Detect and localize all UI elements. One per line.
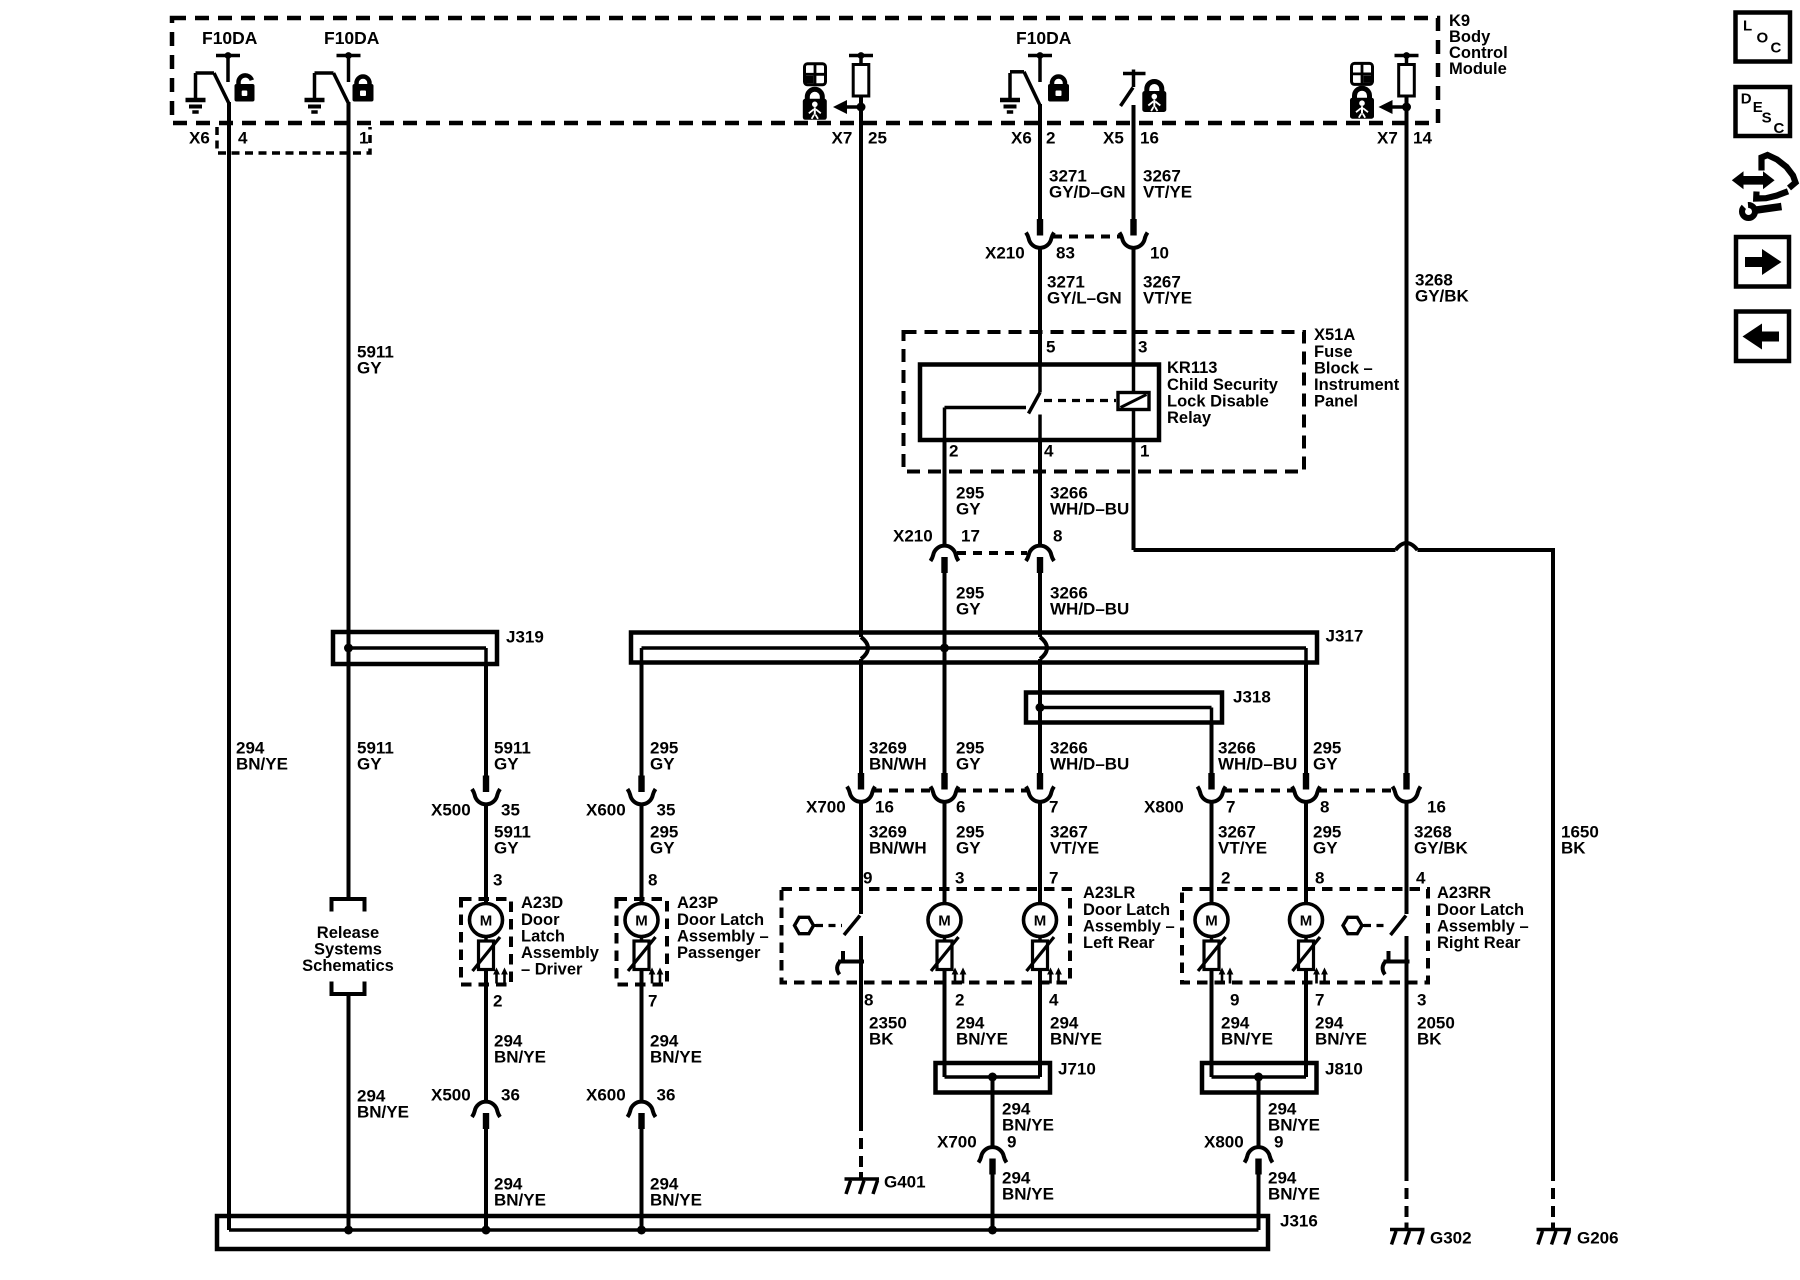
svg-text:16: 16 — [875, 798, 894, 817]
svg-text:J710: J710 — [1058, 1060, 1096, 1079]
wire motor to PTC (A23RR-L) — [1210, 937, 1214, 942]
wire A23RR pin 9 to J810 — [1210, 970, 1214, 1063]
label 1650 BK — [1561, 823, 1599, 858]
svg-text:Fuse: Fuse — [1314, 343, 1353, 361]
wire E X7-25 down to J317 hop — [859, 107, 863, 637]
connector X600 pin 35 — [628, 776, 656, 805]
label 294 BN/YE (J710 out) — [1002, 1100, 1054, 1135]
svg-text:C: C — [1774, 120, 1785, 137]
svg-text:J810: J810 — [1325, 1060, 1363, 1079]
svg-text:35: 35 — [657, 801, 676, 820]
svg-text:2: 2 — [493, 992, 502, 1011]
motor A23RR right — [1290, 904, 1323, 937]
svg-text:Lock Disable: Lock Disable — [1167, 392, 1269, 410]
svg-text:BN/YE: BN/YE — [494, 1191, 546, 1210]
off-page bracket top (Release Systems) — [332, 899, 365, 912]
svg-text:9: 9 — [1230, 991, 1239, 1010]
svg-text:GY: GY — [956, 839, 981, 858]
wire X800-16 to A23RR switch — [1405, 801, 1409, 914]
wire X6-1 to J319 — [347, 102, 351, 897]
svg-text:A23LR: A23LR — [1083, 884, 1135, 902]
svg-text:M: M — [635, 913, 648, 930]
svg-text:9: 9 — [1007, 1133, 1016, 1152]
splice J810 — [1202, 1060, 1317, 1093]
svg-text:C: C — [1771, 40, 1782, 57]
connector X500 pin 35 — [472, 776, 500, 805]
svg-text:GY: GY — [357, 755, 382, 774]
splice pack J318 — [1026, 691, 1222, 724]
off-page bracket bottom (Release Systems) — [332, 982, 365, 995]
svg-text:9: 9 — [863, 869, 872, 888]
svg-text:Schematics: Schematics — [302, 957, 394, 975]
svg-text:S: S — [1762, 110, 1772, 127]
svg-text:M: M — [480, 913, 493, 930]
svg-text:Left Rear: Left Rear — [1083, 934, 1155, 952]
label 294 BN/YE (A23LR pin2) — [956, 1014, 1008, 1049]
svg-text:GY/D–GN: GY/D–GN — [1049, 183, 1126, 202]
pin 83 label — [1056, 244, 1075, 263]
svg-text:F10DA: F10DA — [324, 28, 380, 48]
label 3268 GY/BK (upper) — [1415, 271, 1470, 306]
svg-text:8: 8 — [1320, 798, 1329, 817]
X210 housing dashed link — [1053, 235, 1121, 239]
window icon (X7-14) — [1352, 63, 1373, 84]
wire motor to PTC (A23LR-R) — [1038, 937, 1042, 942]
relay pin 4 label — [1044, 442, 1054, 461]
fuse feed F10DA terminal (2) — [337, 52, 361, 82]
wire motor to PTC (A23RR-R) — [1304, 937, 1308, 942]
svg-text:3: 3 — [1417, 991, 1426, 1010]
pin 7 label (A23LR) — [1049, 869, 1058, 888]
label 295 GY (below X800-8) — [1313, 823, 1341, 858]
svg-text:Relay: Relay — [1167, 409, 1212, 427]
svg-text:GY: GY — [357, 359, 382, 378]
door latch A23LR boundary — [782, 889, 1071, 983]
label G302 — [1430, 1229, 1472, 1248]
splice J710 — [936, 1060, 1051, 1093]
label 295 GY (below X210-17) — [956, 584, 984, 619]
wire motor to PTC (A23LR-L) — [943, 937, 947, 942]
svg-text:GY: GY — [956, 600, 981, 619]
label A23LR Door Latch Assembly - Left Rear — [1083, 884, 1175, 952]
junction dot J316 (M) — [988, 1226, 997, 1235]
label J710 — [1058, 1060, 1096, 1079]
label J316 — [1280, 1212, 1318, 1231]
svg-text:Door Latch: Door Latch — [1437, 901, 1524, 919]
wire X5-16 to X210 — [1132, 105, 1136, 219]
svg-text:WH/D–BU: WH/D–BU — [1050, 600, 1129, 619]
connector X700 pin 7 — [1026, 773, 1054, 802]
svg-text:X210: X210 — [893, 527, 933, 546]
label Release Systems Schematics — [302, 924, 394, 975]
svg-text:7: 7 — [1049, 798, 1058, 817]
svg-text:Instrument: Instrument — [1314, 376, 1400, 394]
svg-text:X51A: X51A — [1314, 326, 1355, 344]
svg-text:M: M — [1300, 913, 1313, 930]
PTC thermistor A23D — [473, 937, 508, 984]
relay coil to pin 3 — [1132, 366, 1136, 393]
svg-text:4: 4 — [238, 129, 248, 148]
label 5911 GY (wire B lower) — [357, 739, 394, 774]
wire A23LR pin 4 to J710 — [1038, 970, 1042, 1063]
wire G X210-8 to J318 — [1038, 572, 1042, 637]
label J318 — [1233, 688, 1271, 707]
pin 16 label — [1140, 129, 1159, 148]
svg-text:X6: X6 — [189, 129, 210, 148]
svg-text:F10DA: F10DA — [1016, 28, 1072, 48]
wire H horizontal run — [1134, 548, 1554, 550]
label 3266 WH/D-BU (above X700-7) — [1050, 739, 1129, 774]
switch blade X6-1 — [334, 73, 349, 104]
svg-text:J316: J316 — [1280, 1212, 1318, 1231]
label 295 GY (above X800-8) — [1313, 739, 1341, 774]
svg-text:2: 2 — [1221, 869, 1230, 888]
junction dot J810 — [1254, 1073, 1263, 1082]
wire E dashed to G401 — [859, 1120, 863, 1172]
wire X6-4 output — [227, 102, 231, 1230]
label X7 (14) — [1377, 129, 1398, 148]
label fuse F10DA (1) — [202, 28, 258, 48]
svg-text:BK: BK — [1417, 1030, 1442, 1049]
svg-text:10: 10 — [1150, 244, 1169, 263]
wire resistor to node (2) — [1405, 96, 1409, 107]
wire X800-7 to A23RR — [1210, 801, 1214, 904]
label 294 BN/YE (A23RR pin9) — [1221, 1014, 1273, 1049]
pin 36 label (X600) — [657, 1086, 676, 1105]
button LOC — [1736, 13, 1791, 62]
connector X210 pin 10 — [1120, 219, 1148, 248]
label 3269 BN/WH (below X700-16) — [869, 823, 927, 858]
child padlock icon (X7-14) — [1350, 88, 1374, 118]
pin 4 label — [238, 129, 248, 148]
label X700 (9) — [937, 1133, 977, 1152]
label 295 GY (above X700-6) — [956, 739, 984, 774]
ground G302 — [1390, 1223, 1425, 1245]
label X51A Fuse Block — [1314, 326, 1400, 410]
wire A23P pin 7 out — [640, 970, 644, 1103]
svg-text:J319: J319 — [506, 628, 544, 647]
label X500 (36) — [431, 1086, 471, 1105]
label A23RR Door Latch Assembly - Right Rear — [1437, 884, 1529, 952]
label X800 — [1144, 798, 1184, 817]
door ajar switch blade (A23RR) — [1391, 916, 1407, 936]
relay common from pin 5 — [1038, 366, 1042, 393]
pin 16 label (X700) — [875, 798, 894, 817]
closed padlock icon (X6-2) — [1048, 77, 1069, 102]
wire G relay pin 4 to X210-8 — [1038, 440, 1042, 546]
label 5911 GY (wire C above X500) — [494, 739, 531, 774]
wire G J318 to X700-7 — [1038, 722, 1042, 773]
relay coil box — [1118, 393, 1149, 410]
feed terminal (X5-16) — [1123, 70, 1146, 88]
wire G hop over J317 — [1040, 637, 1047, 691]
wire resistor to node — [859, 96, 863, 107]
label 294 BN/YE (wire B lower) — [357, 1087, 409, 1122]
wire J710 to X700-9 — [991, 1077, 995, 1148]
svg-text:GY: GY — [956, 755, 981, 774]
pin 8 label (A23LR) — [864, 991, 873, 1010]
wire X700-6 to A23LR motor — [943, 801, 947, 904]
svg-text:VT/YE: VT/YE — [1218, 839, 1267, 858]
wire F relay pin 2 to X210-17 — [945, 440, 946, 546]
splice pack J317 — [631, 633, 1317, 665]
relay coil to pin 1 — [1132, 410, 1136, 442]
motor A23LR right — [1024, 904, 1057, 937]
svg-text:GY: GY — [1313, 839, 1338, 858]
label 294 BN/YE (X600-36 to J316) — [650, 1175, 702, 1210]
pin 1 label — [359, 129, 368, 148]
button next (right arrow) — [1736, 237, 1789, 287]
svg-text:BN/YE: BN/YE — [650, 1048, 702, 1067]
wire E A23LR pin8 to G401 — [859, 983, 863, 1120]
bolt symbol (A23RR) — [1343, 917, 1366, 933]
wire X500-35 to A23D — [484, 804, 488, 905]
svg-text:BK: BK — [1561, 839, 1586, 858]
pin 4 label (A23RR) — [1416, 869, 1426, 888]
wire A23D pin 2 out — [484, 970, 488, 1103]
label G206 — [1577, 1229, 1619, 1248]
wire motor to PTC (A23P) — [640, 937, 644, 942]
relay NO contact to pin 4 — [1038, 415, 1042, 442]
label 295 GY (above X210-17) — [956, 484, 984, 519]
svg-text:17: 17 — [961, 527, 980, 546]
label J319 — [506, 628, 544, 647]
PTC thermistor A23LR left — [931, 937, 966, 984]
junction dot J318 — [1036, 703, 1045, 712]
svg-text:BN/YE: BN/YE — [494, 1048, 546, 1067]
pin 3 label (A23RR) — [1417, 991, 1426, 1010]
svg-text:Assembly: Assembly — [521, 944, 600, 962]
wire K J318 to X800-7 — [1210, 722, 1214, 773]
label fuse F10DA (2) — [324, 28, 380, 48]
label 294 BN/YE (X700-9 to J316) — [1002, 1169, 1054, 1204]
svg-text:M: M — [938, 913, 951, 930]
svg-text:BN/WH: BN/WH — [869, 839, 927, 858]
latch pawl symbol (A23RR) — [1383, 951, 1410, 975]
svg-text:4: 4 — [1416, 869, 1426, 888]
wire H hop over wire I — [1396, 543, 1418, 550]
pin 7 label (A23P) — [648, 992, 657, 1011]
wire F J317 to X700-6 — [943, 647, 947, 773]
relay pin 5 label — [1046, 338, 1055, 357]
wire J dashed section — [1551, 1170, 1555, 1225]
connector X210 pin 83 — [1026, 219, 1054, 248]
wire X800-8 to A23RR — [1304, 801, 1308, 904]
svg-text:X500: X500 — [431, 801, 471, 820]
relay NC contact to pin 2 — [945, 408, 1027, 442]
wire B bracket to J316 — [347, 994, 351, 1230]
label 3271 GY/L-GN — [1047, 273, 1122, 308]
pin 16 label (X800) — [1427, 798, 1446, 817]
connector X700 pin 9 — [979, 1147, 1007, 1174]
svg-text:3: 3 — [493, 871, 502, 890]
pin 9 label (A23LR) — [863, 869, 872, 888]
fuse feed F10DA terminal (3) — [1028, 52, 1052, 82]
switch arm X6-4 — [196, 71, 215, 75]
bolt symbol (A23LR) — [795, 917, 818, 933]
mechanical link (A23LR) — [816, 924, 842, 927]
door ajar switch blade (A23LR) — [844, 916, 860, 936]
junction dot J319 — [344, 644, 353, 653]
pin 4 label (A23LR) — [1049, 991, 1059, 1010]
label G401 — [884, 1173, 926, 1192]
wire X700-9 to J316 — [991, 1174, 995, 1230]
relay actuation dashed link — [1044, 399, 1116, 402]
ground G206 — [1537, 1223, 1572, 1245]
junction dot J316 (B) — [344, 1226, 353, 1235]
label KR113 Child Security Lock Disable Relay — [1167, 359, 1279, 427]
label A23P Door Latch Assembly - Passenger — [677, 894, 769, 962]
svg-text:BN/YE: BN/YE — [1050, 1030, 1102, 1049]
svg-text:7: 7 — [1049, 869, 1058, 888]
wire X800-9 to J316 — [1257, 1174, 1261, 1230]
PTC thermistor A23RR right — [1293, 937, 1328, 984]
label 3266 WH/D-BU (below X210-8) — [1050, 584, 1129, 619]
label 3268 GY/BK (below X800-16) — [1414, 823, 1469, 858]
motor A23D — [470, 904, 503, 937]
svg-text:X700: X700 — [937, 1133, 977, 1152]
label J810 — [1325, 1060, 1363, 1079]
pin 8 label (X800) — [1320, 798, 1329, 817]
svg-text:G302: G302 — [1430, 1229, 1472, 1248]
pin 8 label (X210) — [1053, 527, 1062, 546]
PTC thermistor A23LR right — [1027, 937, 1062, 984]
wire X210-10 to relay pin 3 — [1132, 247, 1136, 367]
junction dot J317 — [940, 644, 949, 653]
resistor feed terminal (X7-14) — [1395, 52, 1419, 64]
icon wrench and arrows — [1732, 155, 1796, 218]
svg-text:Assembly –: Assembly – — [1083, 917, 1175, 935]
relay KR113 body — [920, 365, 1159, 441]
door latch A23D boundary — [461, 899, 511, 985]
svg-text:O: O — [1757, 29, 1769, 46]
label X210 (top) — [985, 244, 1025, 263]
X800 housing dashed link 1 — [1223, 789, 1293, 793]
svg-text:Systems: Systems — [314, 941, 382, 959]
svg-text:M: M — [1034, 913, 1047, 930]
svg-text:VT/YE: VT/YE — [1143, 289, 1192, 308]
wire I X7-14 down to X800-16 — [1405, 107, 1409, 773]
pin 7 label (A23RR) — [1315, 991, 1324, 1010]
pin 8 label (A23RR) — [1315, 869, 1324, 888]
svg-text:GY/L–GN: GY/L–GN — [1047, 289, 1122, 308]
wire X600-35 to A23P — [640, 804, 644, 905]
junction dot J710 — [988, 1073, 997, 1082]
svg-text:BN/YE: BN/YE — [1221, 1030, 1273, 1049]
switch blade X6-2 — [1024, 72, 1040, 106]
svg-text:1: 1 — [359, 129, 368, 148]
BCM K9 Body Control Module boundary — [172, 18, 1438, 123]
motor A23RR left — [1195, 904, 1228, 937]
svg-text:2: 2 — [1046, 129, 1055, 148]
svg-text:WH/D–BU: WH/D–BU — [1218, 755, 1297, 774]
label 294 BN/YE (J810 out) — [1268, 1100, 1320, 1135]
wire I dashed to G302 — [1405, 1170, 1409, 1225]
wire A23RR switch to pin 3 — [1405, 936, 1409, 984]
label X700 — [806, 798, 846, 817]
label fuse F10DA (3) — [1016, 28, 1072, 48]
label 2350 BK — [869, 1014, 907, 1049]
resistor (X7-25 driver) — [853, 65, 869, 97]
label A23D Door Latch Assembly - Driver — [521, 894, 600, 978]
motor A23P — [625, 904, 658, 937]
connector X500 pin 36 — [472, 1102, 500, 1129]
svg-text:– Driver: – Driver — [521, 961, 583, 979]
label 295 GY (below X600-35) — [650, 823, 678, 858]
open padlock icon (unlock command) — [235, 75, 255, 101]
svg-text:Child Security: Child Security — [1167, 376, 1279, 394]
child padlock icon (X5-16) — [1142, 82, 1166, 112]
svg-text:BN/YE: BN/YE — [357, 1103, 409, 1122]
wire X210-83 to relay pin 5 — [1038, 247, 1042, 367]
connector X800 pin 9 — [1245, 1147, 1273, 1174]
svg-text:Module: Module — [1449, 60, 1507, 78]
wire E hop over J317 — [861, 637, 868, 773]
svg-text:G401: G401 — [884, 1173, 926, 1192]
splice pack J319 — [333, 632, 497, 666]
svg-text:Door: Door — [521, 911, 560, 929]
svg-text:X500: X500 — [431, 1086, 471, 1105]
wire I A23RR pin3 to G302 — [1405, 983, 1409, 1170]
ground (BCM internal, X6-2) — [1000, 73, 1020, 112]
svg-text:J318: J318 — [1233, 688, 1271, 707]
pin 36 label (X500) — [501, 1086, 520, 1105]
svg-text:14: 14 — [1413, 129, 1432, 148]
closed padlock icon (lock command) — [353, 77, 374, 102]
connector X700 pin 6 — [931, 773, 959, 802]
svg-text:Right Rear: Right Rear — [1437, 934, 1521, 952]
switch blade X6-4 — [214, 73, 229, 104]
pin 3 label (A23D) — [493, 871, 502, 890]
svg-text:F10DA: F10DA — [202, 28, 258, 48]
svg-text:8: 8 — [1315, 869, 1324, 888]
X700 housing dashed link 1 — [873, 789, 932, 793]
label X800 (9) — [1204, 1133, 1244, 1152]
svg-text:Door Latch: Door Latch — [677, 911, 764, 929]
svg-text:G206: G206 — [1577, 1229, 1619, 1248]
svg-text:Passenger: Passenger — [677, 944, 761, 962]
button back (left arrow) — [1736, 312, 1789, 362]
svg-text:1: 1 — [1140, 442, 1149, 461]
wire C J319 to X500-35 — [484, 664, 488, 776]
junction arrow (X7-14) — [1379, 100, 1412, 114]
svg-text:VT/YE: VT/YE — [1050, 839, 1099, 858]
svg-text:Door Latch: Door Latch — [1083, 901, 1170, 919]
svg-text:X700: X700 — [806, 798, 846, 817]
fuse feed F10DA terminal (1) — [216, 52, 240, 82]
pin 9 label (X800) — [1274, 1133, 1283, 1152]
label 294 BN/YE (X800-9 to J316) — [1268, 1169, 1320, 1204]
wire J810 to X800-9 — [1257, 1077, 1261, 1148]
pin 3 label (A23LR) — [955, 869, 964, 888]
pin 7 label (X800) — [1226, 798, 1235, 817]
svg-text:7: 7 — [1226, 798, 1235, 817]
svg-text:GY: GY — [956, 500, 981, 519]
wire X700-16 to A23LR switch — [859, 801, 863, 914]
label X7 (25) — [832, 129, 853, 148]
svg-text:36: 36 — [501, 1086, 520, 1105]
X210 row2 dashed link — [957, 551, 1027, 555]
PTC thermistor A23P — [628, 937, 663, 984]
switch arm X6-1 — [315, 71, 334, 75]
svg-text:Block –: Block – — [1314, 359, 1373, 377]
pin 6 label (X700) — [956, 798, 965, 817]
svg-text:L: L — [1743, 17, 1752, 34]
svg-text:D: D — [1741, 90, 1752, 107]
connector X700 pin 16 — [847, 773, 875, 802]
relay pin 1 label — [1140, 442, 1149, 461]
splice J316 — [217, 1216, 1268, 1249]
